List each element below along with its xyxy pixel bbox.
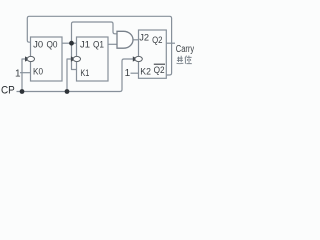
wire CP riser to FF0 clock	[22, 59, 27, 92]
wire Q2 to Carry output	[167, 42, 176, 44]
svg-text:1: 1	[125, 68, 131, 79]
wire Q0 to J1	[62, 42, 77, 44]
FF1 clock edge-trigger wedge and bubble	[71, 56, 81, 61]
flip-flop FF1 body	[77, 37, 109, 81]
wire Q2bar feedback to J0 (net A)	[27, 16, 171, 75]
svg-text:J2: J2	[139, 33, 149, 43]
FF0 clock edge-trigger wedge and bubble	[25, 56, 35, 61]
junction CP node at FF1 riser	[65, 89, 70, 94]
svg-text:K0: K0	[33, 67, 43, 78]
svg-text:CP: CP	[1, 84, 15, 96]
wire logic-1 to K2	[131, 72, 139, 74]
wire AND output to J2	[133, 39, 139, 41]
junction Q0 fanout node	[69, 41, 74, 46]
svg-text:J0: J0	[33, 39, 43, 49]
svg-text:Q2: Q2	[154, 65, 165, 76]
svg-text:Q1: Q1	[93, 40, 104, 50]
overline of Q2-bar	[154, 63, 165, 65]
wire Q0 down to K1	[72, 43, 77, 69]
net label jin-wei (Chinese: carry)	[177, 56, 192, 64]
svg-text:Q0: Q0	[47, 40, 58, 50]
AND gate G1	[117, 31, 133, 48]
svg-text:Q2: Q2	[152, 35, 162, 46]
flip-flop FF0 body	[31, 37, 63, 81]
wire Q1 to AND gate bottom input	[108, 43, 117, 45]
FF2 clock edge-trigger wedge and bubble	[133, 56, 143, 61]
wire logic-1 to K0	[20, 72, 31, 74]
svg-text:1: 1	[15, 68, 21, 79]
junction CP node at FF0 riser	[20, 89, 25, 94]
svg-text:K2: K2	[140, 67, 151, 78]
svg-text:J1: J1	[80, 40, 90, 50]
wire Q0 up to AND gate top input (net B)	[72, 22, 118, 43]
wire CP bus to FF2 clock	[17, 59, 135, 92]
wire CP riser to FF1 clock	[67, 59, 72, 92]
svg-text:Carry: Carry	[176, 44, 194, 55]
flip-flop FF2 body	[139, 30, 167, 78]
svg-text:K1: K1	[80, 68, 89, 78]
